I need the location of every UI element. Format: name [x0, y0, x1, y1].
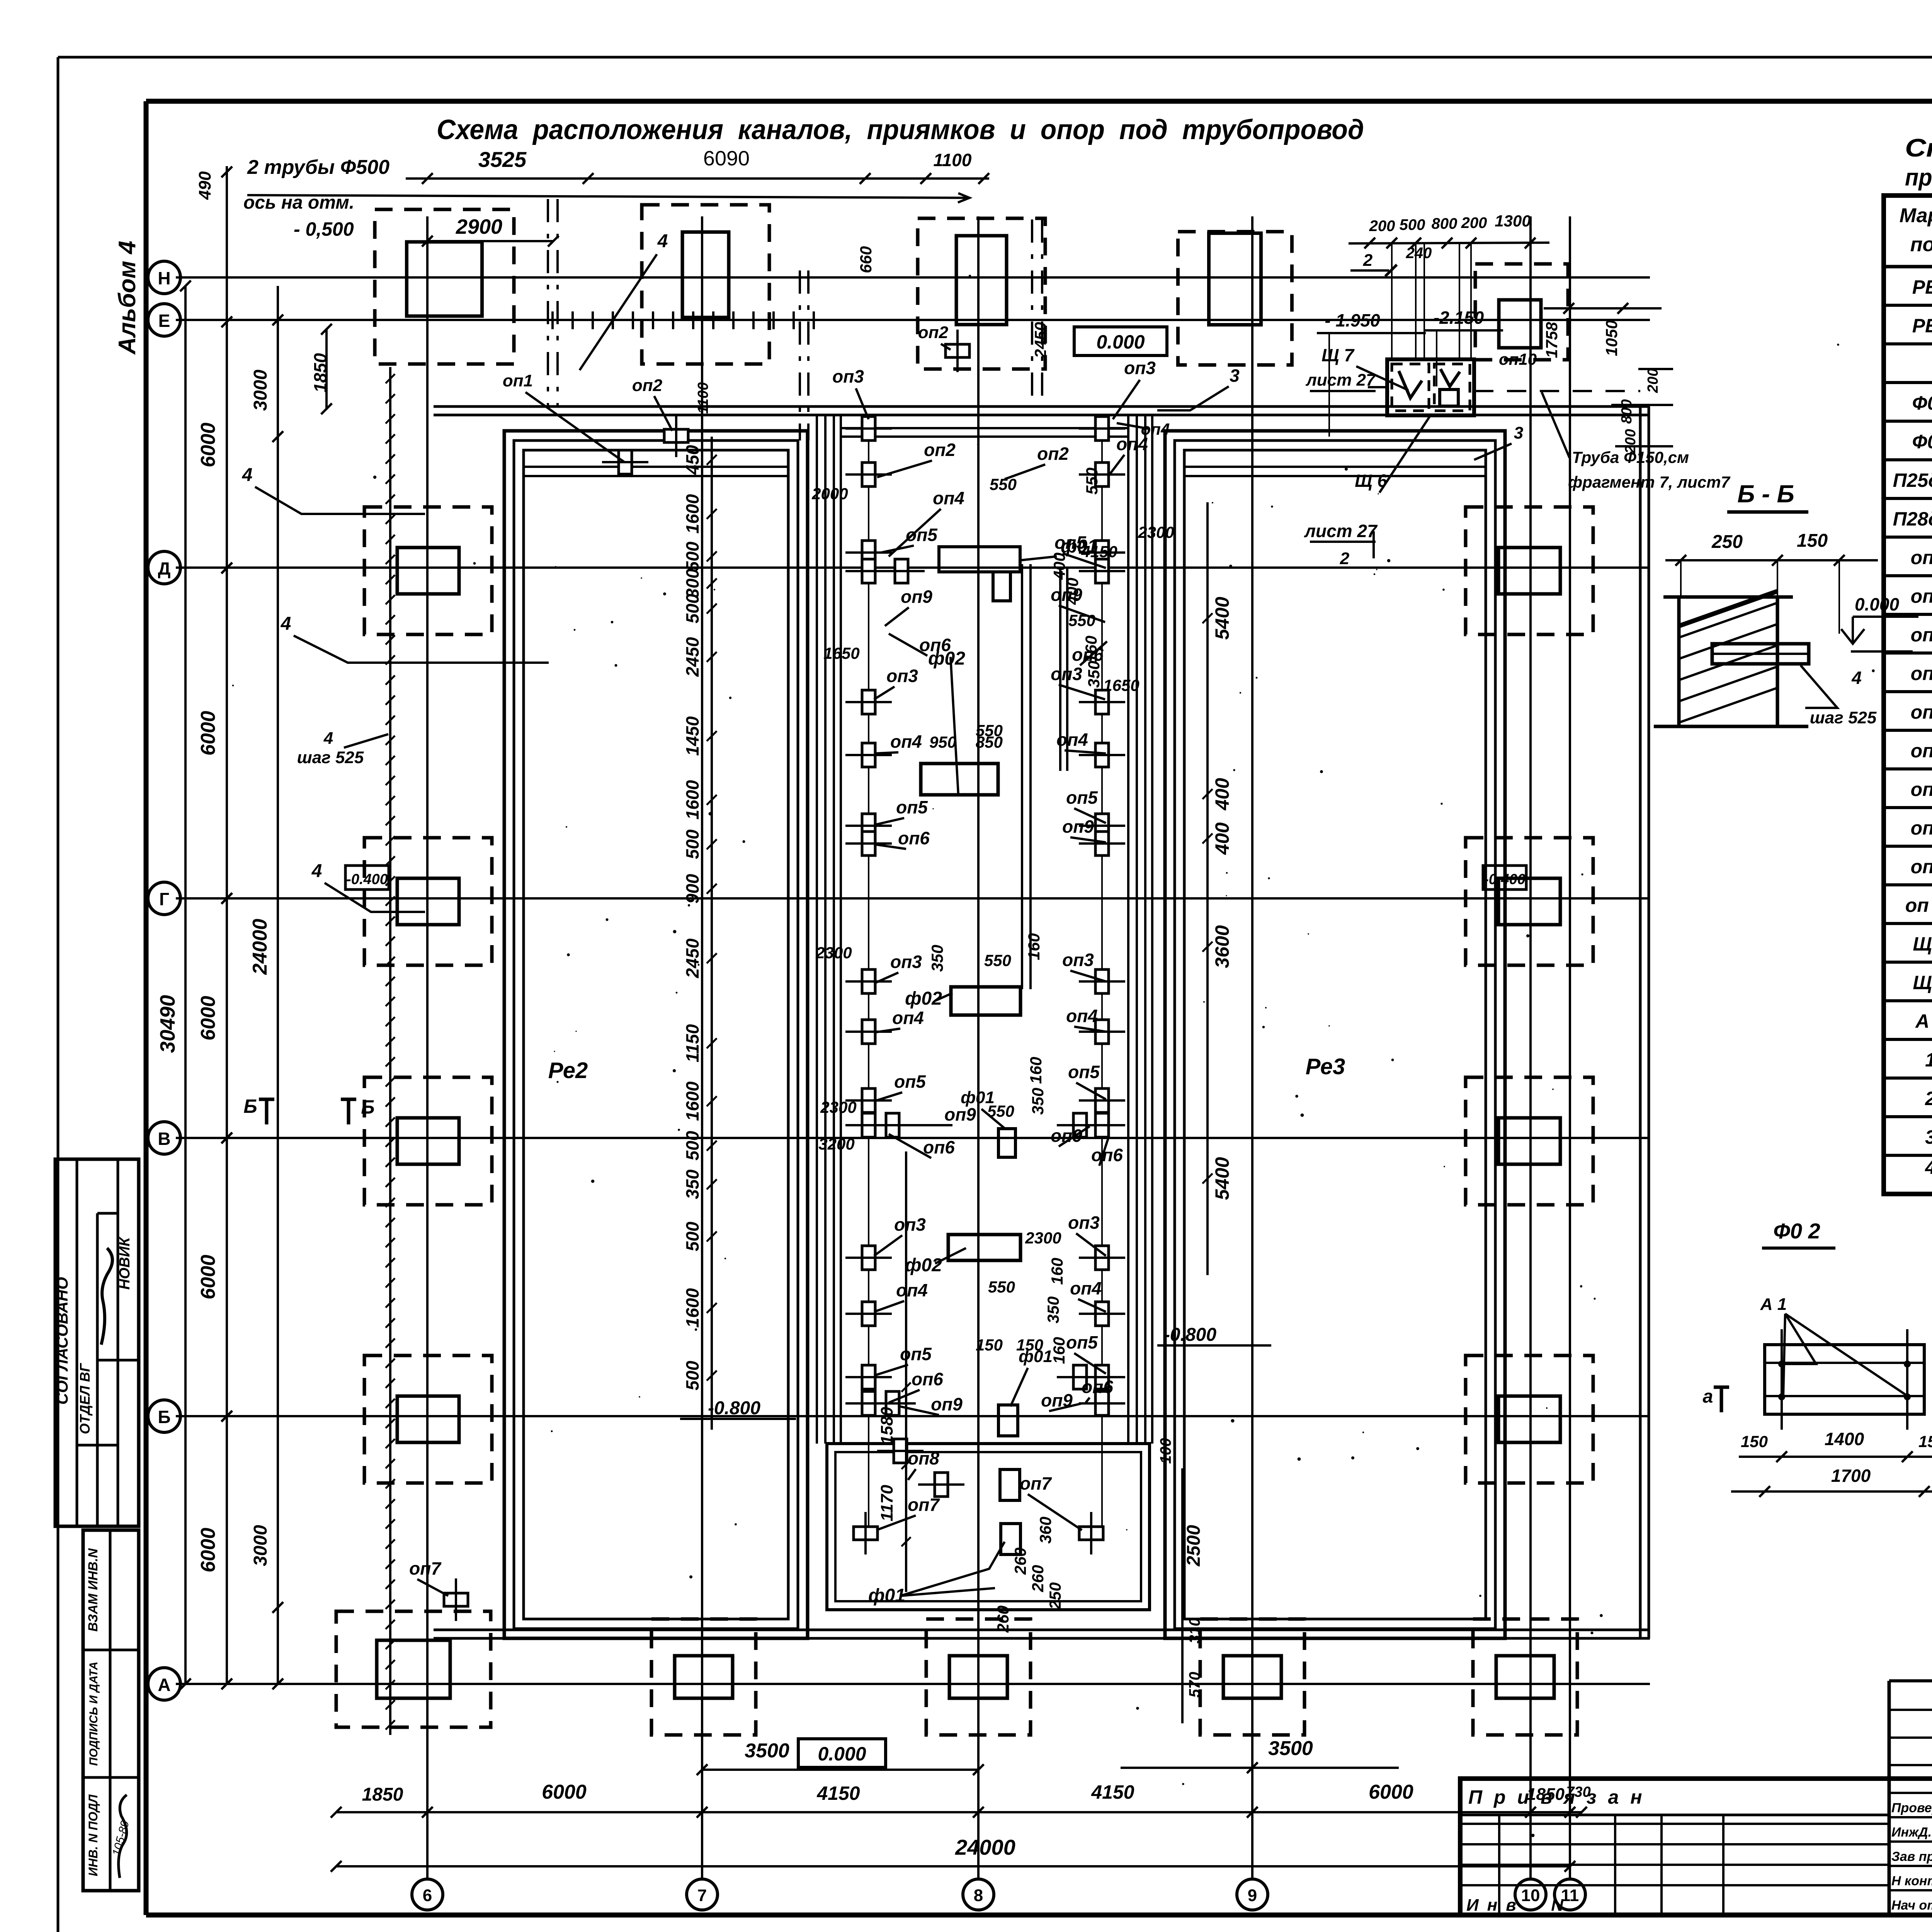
svg-text:500: 500	[682, 594, 702, 623]
svg-text:550: 550	[988, 1278, 1015, 1296]
flag 4 mid	[311, 861, 425, 912]
svg-text:4150: 4150	[1091, 1781, 1134, 1803]
svg-text:2 трубы Ф500: 2 трубы Ф500	[247, 156, 389, 179]
svg-text:оп 4: оп 4	[1911, 663, 1932, 684]
svg-text:оп5: оп5	[900, 1344, 932, 1364]
svg-text:1600: 1600	[682, 1288, 702, 1328]
label оп6	[889, 1134, 955, 1158]
svg-text:1650: 1650	[823, 644, 859, 662]
svg-text:6000: 6000	[542, 1781, 587, 1803]
svg-text:оп7: оп7	[908, 1495, 940, 1515]
svg-text:4: 4	[281, 614, 291, 634]
svg-text:- 1.950: - 1.950	[1325, 310, 1380, 330]
svg-text:200: 200	[1461, 214, 1487, 231]
svg-text:оп3: оп3	[890, 952, 922, 972]
support оп4 right rail	[1079, 1302, 1125, 1326]
svg-text:6000: 6000	[197, 1528, 219, 1573]
pipes leader 2 трубы	[243, 156, 969, 240]
footing axis10 row Г	[1466, 838, 1593, 965]
svg-text:150: 150	[1918, 1432, 1932, 1451]
svg-text:Нач отд: Нач отд	[1891, 1898, 1932, 1913]
label оп6	[874, 828, 930, 849]
boxed level 0.000 bottom	[798, 1739, 886, 1767]
label оп9	[1051, 585, 1105, 622]
svg-text:5400: 5400	[1211, 1157, 1233, 1200]
support оп5 left rail	[845, 541, 892, 565]
label оп4	[1070, 1278, 1106, 1312]
svg-text:250: 250	[1046, 1582, 1064, 1610]
svg-text:500: 500	[682, 1131, 702, 1160]
svg-text:оп6: оп6	[923, 1137, 955, 1157]
label оп5	[881, 525, 938, 553]
support оп9 pair right	[1057, 1113, 1103, 1137]
svg-text:2000: 2000	[811, 485, 848, 503]
svg-text:3000: 3000	[250, 369, 271, 411]
svg-text:7: 7	[697, 1886, 707, 1905]
svg-text:30490: 30490	[156, 995, 179, 1053]
svg-text:350: 350	[1085, 661, 1103, 688]
svg-text:Ре3: Ре3	[1306, 1054, 1345, 1079]
svg-text:500: 500	[682, 1361, 702, 1390]
svg-text:Альбом 4: Альбом 4	[114, 241, 141, 355]
support оп9 left rail	[845, 1113, 892, 1137]
svg-text:оп4: оп4	[1066, 1006, 1098, 1026]
svg-text:3: 3	[1230, 366, 1240, 386]
section mark Б right	[341, 1096, 375, 1124]
svg-text:оп9: оп9	[931, 1394, 963, 1414]
support оп7 left	[854, 1512, 878, 1554]
right dim ladder	[1202, 502, 1233, 1275]
svg-text:350: 350	[682, 1169, 702, 1199]
support оп7 mid	[877, 1439, 923, 1463]
svg-text:2450: 2450	[682, 637, 702, 677]
support оп6 right rail	[1079, 559, 1125, 583]
support оп5 right rail	[1079, 1365, 1125, 1389]
svg-text:1400: 1400	[1825, 1429, 1864, 1449]
axis line Д	[148, 551, 1650, 584]
svg-text:оп 1: оп 1	[1911, 547, 1932, 568]
label ф02 no2	[905, 988, 952, 1009]
svg-text:4150: 4150	[1081, 543, 1117, 561]
svg-text:А 1: А 1	[1915, 1010, 1932, 1032]
detail Ф02	[1703, 1219, 1932, 1497]
svg-text:оп7: оп7	[1020, 1473, 1052, 1493]
support оп3 left rail	[845, 417, 892, 440]
svg-text:200: 200	[1369, 218, 1395, 235]
svg-text:Щ 6: Щ 6	[1913, 933, 1932, 955]
svg-text:ось на отм.: ось на отм.	[243, 192, 354, 213]
svg-text:оп4: оп4	[1056, 730, 1088, 750]
svg-text:оп2: оп2	[1037, 444, 1069, 464]
foundation ф02 no2	[951, 987, 1020, 1015]
flag 3 labels	[1157, 366, 1523, 460]
svg-text:ПОДПИСЬ И ДАТА: ПОДПИСЬ И ДАТА	[87, 1662, 100, 1766]
svg-text:оп3: оп3	[832, 366, 864, 386]
svg-text:Щ 7: Щ 7	[1913, 972, 1932, 993]
label оп4	[1066, 1006, 1106, 1032]
svg-text:24000: 24000	[249, 919, 271, 975]
axis line 11	[1554, 216, 1585, 1910]
svg-text:шаг 525: шаг 525	[297, 748, 364, 767]
support оп3 right rail	[1079, 969, 1125, 993]
support оп4 left rail	[845, 743, 892, 767]
svg-text:оп 8: оп 8	[1911, 817, 1932, 839]
svg-text:660: 660	[857, 246, 875, 273]
svg-text:П28д-15: П28д-15	[1893, 508, 1932, 530]
svg-text:8: 8	[974, 1886, 983, 1905]
svg-text:оп5: оп5	[894, 1071, 926, 1092]
svg-text:550: 550	[1083, 468, 1101, 495]
svg-text:1850: 1850	[362, 1784, 403, 1805]
footing axis6 row В	[364, 1077, 492, 1205]
axis line В	[148, 1122, 1650, 1154]
label оп6	[889, 634, 951, 656]
svg-text:1100: 1100	[695, 382, 711, 414]
svg-text:оп3: оп3	[1062, 950, 1094, 970]
svg-text:оп5: оп5	[1068, 1062, 1100, 1082]
dim 2900	[422, 215, 559, 247]
svg-text:-2.150: -2.150	[1434, 308, 1484, 328]
svg-text:оп4: оп4	[1070, 1278, 1102, 1298]
level -1.950	[1317, 310, 1426, 437]
support оп3 left rail	[845, 1246, 892, 1270]
svg-text:Н: Н	[158, 268, 170, 288]
label оп4	[1056, 730, 1106, 753]
pipe dashed axes	[548, 199, 1042, 440]
support оп9 pair left	[869, 1113, 916, 1137]
label ф02 no1	[928, 648, 965, 794]
axis line А	[148, 1668, 1650, 1700]
svg-text:160: 160	[1082, 636, 1100, 663]
svg-text:2: 2	[1340, 549, 1350, 568]
tank Ре3	[1165, 431, 1505, 1638]
svg-text:- 0,500: - 0,500	[294, 218, 354, 240]
svg-text:оп9: оп9	[901, 587, 932, 607]
label оп5	[1066, 1332, 1106, 1374]
svg-text:3500: 3500	[1268, 1737, 1313, 1760]
support оп6 right rail	[1079, 1391, 1125, 1415]
level -2.150	[1424, 308, 1503, 386]
support оп5 left rail	[845, 1088, 892, 1112]
label оп3	[1068, 1213, 1106, 1256]
svg-text:1650: 1650	[1103, 676, 1139, 694]
label оп7	[1020, 1473, 1082, 1530]
svg-text:400: 400	[1050, 553, 1068, 580]
svg-text:оп9: оп9	[944, 1104, 976, 1124]
label оп7	[409, 1558, 448, 1596]
support оп4 left rail	[845, 1302, 892, 1326]
svg-text:150: 150	[976, 1336, 1003, 1354]
svg-text:500: 500	[1400, 216, 1425, 233]
svg-text:500: 500	[682, 829, 702, 859]
svg-text:500: 500	[682, 1221, 702, 1251]
photocopy specks	[232, 234, 1932, 1837]
support rail axis left	[868, 425, 869, 1530]
24000/3000 chain	[249, 286, 283, 1689]
svg-text:Б: Б	[243, 1095, 257, 1117]
section Б-Б detail	[1654, 480, 1918, 727]
svg-text:ф02: ф02	[905, 988, 942, 1009]
svg-text:А 1: А 1	[1760, 1295, 1787, 1314]
svg-text:4: 4	[311, 861, 322, 881]
left stamp strip ВЗАМ ИНВ / ПОДПИСЬ И ДАТА / ИНВ N ПОДЛ	[83, 1530, 139, 1891]
svg-text:оп3: оп3	[1051, 664, 1082, 684]
support оп8	[918, 1473, 964, 1497]
label оп9	[885, 587, 932, 626]
svg-text:150: 150	[1741, 1432, 1768, 1451]
footing axis6 row E	[375, 209, 514, 364]
support оп5 right rail	[1079, 814, 1125, 838]
svg-text:оп6: оп6	[898, 828, 930, 848]
svg-text:3200: 3200	[818, 1135, 854, 1153]
svg-text:100: 100	[1157, 1438, 1174, 1464]
label оп3	[874, 952, 922, 983]
label оп9	[908, 1104, 976, 1125]
svg-text:оп5: оп5	[906, 525, 938, 545]
support оп6 left rail	[845, 559, 892, 583]
label оп2	[877, 440, 956, 477]
label оп4	[1109, 434, 1148, 475]
label оп3	[874, 1214, 926, 1256]
svg-text:350: 350	[1029, 1088, 1047, 1115]
svg-text:2450: 2450	[682, 938, 702, 978]
foundation ф01 small mid	[998, 1129, 1015, 1157]
svg-text:1758: 1758	[1543, 322, 1561, 358]
support оп3 left rail	[845, 969, 892, 993]
support оп6 pair left low	[869, 1391, 916, 1415]
svg-text:9: 9	[1248, 1886, 1257, 1905]
flag 4 lower-left plan	[281, 614, 549, 663]
svg-text:800: 800	[1432, 215, 1458, 232]
svg-text:оп5: оп5	[1066, 787, 1098, 808]
svg-text:оп 10: оп 10	[1905, 895, 1932, 916]
footing axis10 row Д	[1466, 507, 1593, 634]
label оп4	[889, 488, 964, 556]
svg-text:П25д-15: П25д-15	[1893, 469, 1932, 491]
svg-text:2500: 2500	[1184, 1525, 1204, 1566]
boxed level 0.000 top	[1074, 327, 1167, 355]
svg-text:1700: 1700	[1831, 1466, 1871, 1486]
axis line Г	[148, 882, 1650, 915]
svg-text:3000: 3000	[250, 1525, 271, 1566]
svg-text:2: 2	[1363, 251, 1373, 270]
svg-text:2300: 2300	[1138, 523, 1174, 541]
svg-text:оп2: оп2	[632, 376, 663, 395]
boxed level -0.400 left	[345, 866, 389, 889]
footing axis9 row A	[1200, 1619, 1304, 1735]
label оп5	[1054, 532, 1106, 568]
corridor dim ladder	[878, 1151, 911, 1592]
svg-text:4150: 4150	[816, 1782, 860, 1804]
svg-text:поз.: поз.	[1910, 233, 1932, 256]
svg-text:3: 3	[1925, 1126, 1932, 1148]
foundation ф01 small low3	[1001, 1524, 1020, 1554]
axis line 9	[1237, 216, 1268, 1910]
support оп4 right rail	[1079, 743, 1125, 767]
label оп2	[1005, 444, 1069, 479]
svg-text:Марка: Марка	[1900, 204, 1932, 227]
support оп3 right rail	[1079, 417, 1125, 440]
svg-text:ИНВ. N ПОДЛ: ИНВ. N ПОДЛ	[86, 1794, 100, 1876]
label оп6	[1072, 641, 1107, 665]
flag 4 top	[580, 231, 668, 370]
svg-text:2300: 2300	[1025, 1229, 1061, 1247]
svg-text:ОТДЕЛ ВГ: ОТДЕЛ ВГ	[77, 1362, 93, 1434]
right lower dims	[1157, 1438, 1204, 1723]
svg-text:250: 250	[1711, 532, 1743, 552]
foundation ф01 small low2	[1000, 1469, 1020, 1500]
svg-text:240: 240	[1406, 245, 1432, 262]
axis line Б	[148, 1400, 1650, 1432]
svg-text:Щ 7: Щ 7	[1321, 345, 1355, 365]
footing axis8 row A	[926, 1619, 1031, 1735]
оп2 axis8 label	[918, 323, 951, 350]
svg-text:оп3: оп3	[894, 1214, 926, 1235]
left stamp table СОГЛАСОВАНО	[53, 1159, 139, 1526]
svg-text:оп7: оп7	[409, 1558, 442, 1578]
svg-text:490: 490	[196, 171, 214, 200]
svg-text:3500: 3500	[745, 1740, 789, 1762]
support оп5 left rail	[845, 1365, 892, 1389]
svg-text:200: 200	[1645, 368, 1661, 393]
svg-text:150: 150	[1797, 531, 1828, 551]
foundation ф02 no3	[948, 1235, 1020, 1260]
support оп1 top	[602, 450, 648, 474]
svg-text:ф02: ф02	[928, 648, 965, 669]
support оп7 right	[1079, 1512, 1103, 1554]
bottom total 24000	[331, 1835, 1575, 1872]
шаг 525 label	[297, 729, 388, 767]
svg-text:Д: Д	[158, 558, 171, 578]
svg-text:2300: 2300	[820, 1098, 856, 1116]
svg-text:Ф01: Ф01	[1912, 392, 1932, 414]
svg-text:1600: 1600	[682, 780, 702, 820]
svg-text:А: А	[158, 1675, 170, 1695]
svg-text:-0.800: -0.800	[1164, 1325, 1216, 1345]
support оп5 pair right	[1057, 1365, 1103, 1389]
label оп8	[908, 1448, 939, 1480]
label ф01 lower mid	[1010, 1347, 1053, 1406]
footing axis10 row E	[1475, 264, 1568, 360]
svg-text:НОВИК: НОВИК	[117, 1236, 133, 1290]
svg-text:0.000: 0.000	[818, 1743, 866, 1765]
svg-text:850: 850	[976, 733, 1003, 751]
svg-text:оп3: оп3	[886, 666, 918, 686]
label оп9	[1051, 1126, 1090, 1146]
svg-text:2900: 2900	[456, 215, 502, 238]
foundation ф02 no1	[921, 764, 998, 795]
svg-text:350: 350	[928, 945, 946, 972]
svg-text:оп 3: оп 3	[1911, 624, 1932, 646]
footing axis9 row E	[1178, 232, 1292, 365]
footing axis10 row В	[1466, 1077, 1593, 1205]
svg-text:фрагмент 7, лист7: фрагмент 7, лист7	[1568, 473, 1731, 491]
svg-text:СОГЛАСОВАНО: СОГЛАСОВАНО	[53, 1277, 71, 1405]
label оп4	[874, 1008, 924, 1032]
svg-text:Инв. N: Инв. N	[1466, 1896, 1572, 1915]
label оп5	[1068, 1062, 1106, 1099]
svg-text:310: 310	[1186, 1618, 1203, 1644]
tank Ре2	[504, 431, 808, 1638]
label оп6	[889, 1369, 943, 1403]
footing axis10 row Б	[1466, 1355, 1593, 1483]
svg-text:800: 800	[1619, 399, 1635, 423]
svg-text:450: 450	[682, 445, 702, 475]
svg-text:Провер: Провер	[1891, 1801, 1932, 1815]
hatched boxes Щ6 Щ7	[1368, 359, 1474, 415]
svg-text:Е: Е	[158, 311, 170, 331]
footing axis7 row A	[651, 1619, 756, 1735]
support оп3 right rail	[1079, 1246, 1125, 1270]
svg-text:5400: 5400	[1211, 597, 1233, 639]
svg-text:6: 6	[423, 1886, 432, 1905]
svg-text:260: 260	[1029, 1565, 1047, 1592]
svg-text:оп4: оп4	[896, 1280, 928, 1300]
svg-text:1600: 1600	[682, 1081, 702, 1121]
axis line Е	[148, 304, 1650, 336]
support оп6 left rail	[845, 1391, 892, 1415]
svg-text:950: 950	[929, 733, 956, 751]
svg-text:Г: Г	[159, 889, 169, 909]
svg-text:900: 900	[682, 874, 702, 903]
label оп5	[874, 1344, 932, 1376]
flag 4 left	[242, 465, 425, 514]
left 6000 dim chain	[197, 166, 232, 1689]
axis line 6	[412, 216, 443, 1910]
svg-text:550: 550	[984, 951, 1011, 969]
svg-text:150: 150	[1016, 1336, 1043, 1354]
bottom dim row	[331, 1781, 1591, 1818]
support оп4 left rail	[845, 1020, 892, 1044]
svg-text:4: 4	[323, 729, 333, 748]
svg-text:Ф0 2: Ф0 2	[1773, 1219, 1820, 1243]
axis line Н	[148, 261, 1650, 294]
svg-text:оп6: оп6	[1082, 1377, 1113, 1397]
tick scale line шаг 525	[386, 367, 395, 1735]
svg-text:400: 400	[1211, 778, 1233, 811]
label оп6	[1091, 1136, 1123, 1166]
оп1 top label	[503, 371, 624, 462]
svg-text:Зав пр.: Зав пр.	[1891, 1849, 1932, 1864]
label оп5	[874, 1071, 926, 1101]
svg-text:1150: 1150	[682, 1024, 702, 1062]
svg-text:оп3: оп3	[1124, 358, 1156, 378]
svg-text:360: 360	[1036, 1517, 1054, 1544]
footing axis6 row Д	[364, 507, 492, 634]
svg-text:4: 4	[1851, 668, 1862, 688]
svg-text:1170: 1170	[878, 1485, 896, 1521]
foundation ф01 top	[939, 547, 1020, 601]
svg-text:6000: 6000	[197, 1255, 219, 1299]
svg-text:350: 350	[1044, 1296, 1062, 1323]
svg-text:оп6: оп6	[912, 1369, 943, 1389]
svg-text:ф02: ф02	[905, 1255, 942, 1276]
svg-text:2450: 2450	[1031, 322, 1049, 358]
support оп7 far-left	[444, 1578, 468, 1621]
corridor central partition	[1021, 564, 1023, 989]
svg-text:лист 27: лист 27	[1305, 371, 1376, 389]
svg-text:Ф02: Ф02	[1912, 431, 1932, 452]
svg-text:оп 7: оп 7	[1911, 779, 1932, 800]
svg-text:160: 160	[1025, 933, 1043, 960]
svg-text:6000: 6000	[197, 711, 219, 756]
svg-text:2300: 2300	[815, 944, 852, 962]
svg-text:оп5: оп5	[896, 797, 928, 817]
svg-text:1300: 1300	[1495, 212, 1531, 230]
label оп7	[876, 1495, 940, 1530]
svg-text:550: 550	[990, 475, 1017, 493]
svg-text:0.000: 0.000	[1855, 594, 1900, 614]
